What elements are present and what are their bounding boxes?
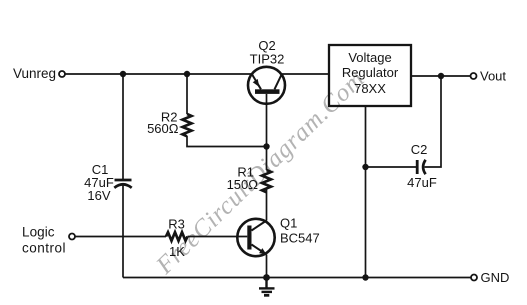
svg-text:150Ω: 150Ω [227,177,259,192]
svg-text:Logic: Logic [22,225,55,240]
terminal GND [471,275,477,281]
wire regulator ground pin [365,106,367,278]
svg-text:16V: 16V [87,188,110,203]
wire C2 right branch [425,76,441,167]
wire C1 top branch [122,74,124,180]
wire Q1 emitter [266,255,268,278]
wire Q2 base [266,94,268,147]
node C1 top [120,71,126,77]
svg-text:C2: C2 [411,142,428,157]
svg-text:R3: R3 [168,217,185,232]
svg-text:GND: GND [481,270,510,285]
wire C2 left branch [366,166,418,168]
capacitor C1 [114,180,131,188]
wire R2 bottom to node [187,136,267,147]
svg-text:Voltage: Voltage [348,50,391,65]
transistor Q2 [248,67,285,104]
svg-text:47uF: 47uF [407,175,437,190]
node C2 left [362,164,368,170]
wire regulator output to Vout [411,75,471,77]
terminal Vout [471,73,477,79]
ground symbol [259,278,275,296]
wire R2 top [186,74,188,114]
svg-text:Vunreg: Vunreg [13,66,56,81]
capacitor C2 [417,160,425,174]
svg-text:TIP32: TIP32 [250,52,285,67]
wire Vunreg rail [65,73,252,75]
node R2 top [184,71,190,77]
wire Q2 collector to regulator [282,73,329,75]
terminal Vunreg [59,71,65,77]
node regulator ground [362,274,368,280]
node R2 R1 base junction [263,143,269,149]
wire ground rail [123,277,471,279]
resistor R3 [166,232,188,241]
wire C1 bottom branch [122,185,124,277]
node C2 top [438,73,444,79]
svg-text:Regulator: Regulator [342,65,399,80]
svg-text:Q1: Q1 [280,216,297,231]
voltage regulator U1 box [329,45,411,106]
wire R1 top [266,147,268,171]
svg-text:BC547: BC547 [280,231,320,246]
transistor Q1 [237,219,274,256]
svg-text:Vout: Vout [480,69,506,84]
terminal Logic control [69,234,75,240]
wire R1 bottom to Q1 collector [266,188,268,221]
resistor R1 [262,170,271,192]
svg-text:560Ω: 560Ω [147,121,179,136]
node Q1 emitter ground [263,274,270,281]
resistor R2 [183,114,192,136]
svg-text:1K: 1K [169,244,185,259]
svg-text:78XX: 78XX [354,81,386,96]
wire logic control to R3 [75,236,166,238]
wire R3 to Q1 base [188,236,248,238]
svg-text:control: control [22,241,66,256]
